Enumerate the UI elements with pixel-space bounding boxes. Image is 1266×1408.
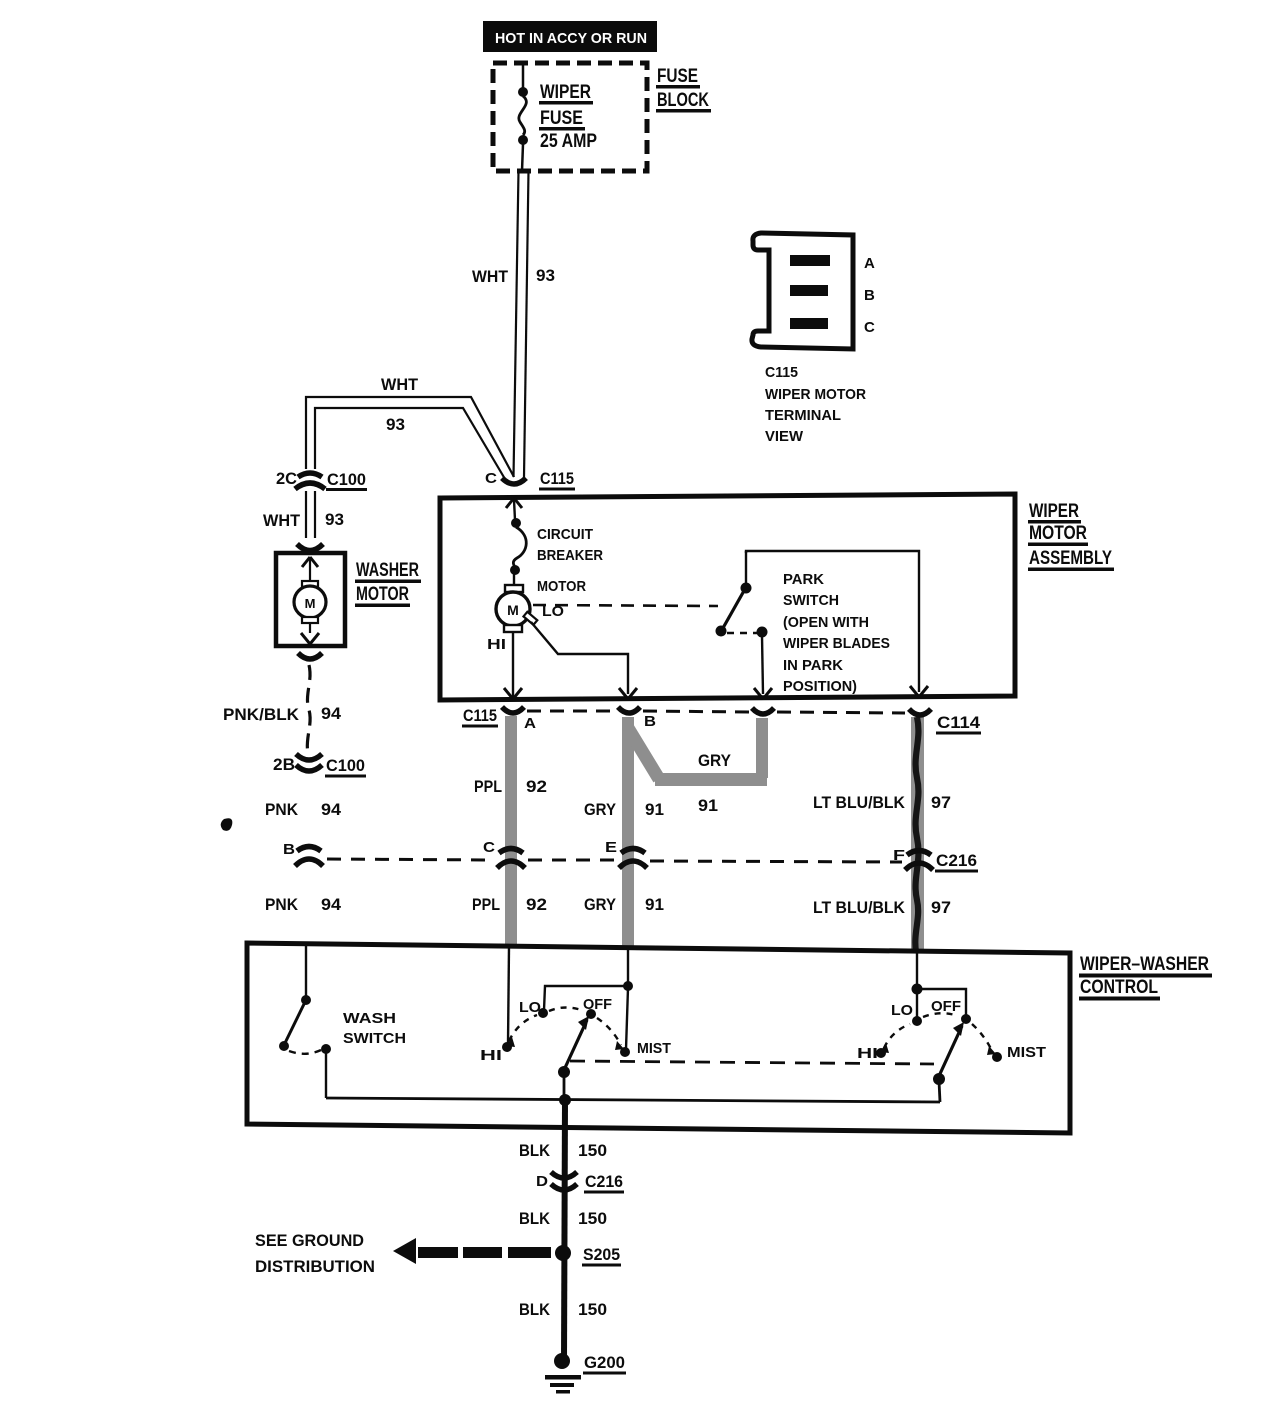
gray wire GRY 91 branch to park terminal — [628, 718, 768, 786]
right switch blade with arrow — [933, 1022, 964, 1102]
svg-text:WASH: WASH — [343, 1010, 396, 1027]
svg-text:C115: C115 — [765, 364, 798, 381]
svg-text:C114: C114 — [937, 713, 981, 732]
connector 2C C100 — [276, 469, 367, 491]
gray wire GRY 91 vertical — [622, 717, 634, 948]
wire WHT 93 branch to washer motor (double line) — [306, 397, 514, 479]
wire label GRY 91 — [584, 800, 664, 819]
terminal C114 connector — [909, 709, 981, 735]
svg-text:TERMINAL: TERMINAL — [765, 407, 841, 424]
park terminal connector — [752, 708, 774, 714]
svg-text:PPL: PPL — [474, 777, 502, 796]
svg-text:150: 150 — [578, 1300, 607, 1319]
connector at washer motor top — [297, 544, 323, 551]
svg-text:SWITCH: SWITCH — [343, 1030, 406, 1047]
dashed row B to C216 — [327, 859, 902, 862]
connector B — [283, 841, 323, 866]
svg-text:LO: LO — [891, 1002, 913, 1019]
svg-text:POSITION): POSITION) — [783, 678, 857, 695]
arrow at terminal B — [619, 688, 637, 699]
svg-text:ASSEMBLY: ASSEMBLY — [1029, 548, 1112, 569]
svg-text:97: 97 — [931, 898, 951, 917]
svg-text:SEE GROUND: SEE GROUND — [255, 1231, 364, 1250]
svg-text:DISTRIBUTION: DISTRIBUTION — [255, 1257, 375, 1276]
terminal row C115 below assembly box — [462, 706, 498, 728]
svg-text:PPL: PPL — [472, 895, 500, 914]
svg-text:BLOCK: BLOCK — [657, 90, 709, 111]
wiper-washer control box — [247, 943, 1070, 1133]
svg-text:B: B — [283, 841, 295, 858]
svg-text:PNK: PNK — [265, 800, 299, 819]
wire label BLK 150 — [519, 1209, 607, 1228]
svg-text:PNK: PNK — [265, 895, 299, 914]
svg-text:C: C — [483, 839, 495, 856]
park switch label — [783, 571, 890, 695]
wiper-washer control label — [1079, 954, 1212, 1001]
svg-text:LT BLU/BLK: LT BLU/BLK — [813, 898, 906, 917]
svg-text:WIPER: WIPER — [540, 82, 591, 103]
svg-text:C100: C100 — [326, 756, 365, 775]
right wiper switch contacts from LT BLU/BLK — [876, 952, 1002, 1062]
svg-text:M: M — [507, 602, 519, 618]
right switch dashed arc — [880, 1013, 996, 1055]
svg-text:WIPER: WIPER — [1029, 501, 1079, 522]
svg-text:OFF: OFF — [583, 996, 612, 1013]
svg-text:MIST: MIST — [1007, 1044, 1046, 1061]
svg-text:VIEW: VIEW — [765, 428, 804, 445]
svg-text:94: 94 — [321, 895, 342, 914]
svg-text:S205: S205 — [583, 1245, 620, 1264]
dashed link to right switch — [570, 1061, 934, 1064]
svg-text:92: 92 — [526, 895, 547, 914]
connector F C216 — [893, 847, 978, 873]
svg-text:2B: 2B — [273, 755, 295, 774]
svg-text:GRY: GRY — [698, 751, 732, 770]
fuse block dashed box — [493, 63, 647, 171]
svg-text:WASHER: WASHER — [356, 560, 419, 581]
svg-text:(OPEN WITH: (OPEN WITH — [783, 614, 869, 631]
svg-text:IN PARK: IN PARK — [783, 657, 843, 674]
svg-text:WHT: WHT — [381, 375, 419, 394]
wire label PNK 94 lower — [265, 895, 342, 914]
gray wire LT BLU/BLK 97 with dark core — [911, 717, 924, 952]
svg-text:D: D — [536, 1173, 548, 1190]
svg-text:BLK: BLK — [519, 1300, 551, 1319]
terminal A connector — [502, 707, 536, 732]
washer motor M symbol — [294, 557, 326, 644]
svg-text:150: 150 — [578, 1209, 607, 1228]
wire WHT 93 from fuse to C115 (double line) — [514, 171, 529, 477]
svg-text:A: A — [524, 715, 536, 732]
left switch position labels — [519, 996, 671, 1057]
circuit breaker — [510, 518, 526, 575]
wire WHT 93 to washer motor (double line) — [306, 491, 315, 538]
svg-text:92: 92 — [526, 777, 547, 796]
svg-text:97: 97 — [931, 793, 951, 812]
svg-text:93: 93 — [536, 266, 555, 285]
wire label WHT 93 — [472, 266, 555, 286]
wire HI to terminal A — [504, 632, 522, 699]
wire label BLK 150 — [519, 1300, 607, 1319]
svg-text:91: 91 — [698, 796, 718, 815]
wire label LT BLU/BLK 97 lower — [813, 898, 951, 917]
wire label GRY 91 lower — [584, 895, 664, 914]
wire label BLK 150 — [519, 1141, 607, 1160]
svg-text:WHT: WHT — [263, 511, 301, 530]
wiper motor assembly label — [1028, 501, 1114, 571]
svg-text:C: C — [864, 319, 875, 336]
svg-text:HOT IN ACCY OR RUN: HOT IN ACCY OR RUN — [495, 30, 647, 47]
svg-text:C: C — [485, 470, 497, 487]
ground G200 — [545, 1353, 626, 1394]
svg-text:2C: 2C — [276, 469, 297, 488]
branch wire label GRY 91 — [698, 751, 732, 815]
svg-text:FUSE: FUSE — [540, 108, 583, 129]
wire label PNK 94 — [265, 800, 342, 819]
wire into breaker with up arrow — [506, 498, 522, 520]
power feed label HOT IN ACCY OR RUN — [483, 21, 657, 52]
wire PNK/BLK 94 (broken scanned line) — [307, 665, 310, 753]
washer motor box — [276, 553, 345, 646]
svg-text:25 AMP: 25 AMP — [540, 131, 597, 152]
wire LO to terminal B — [531, 622, 628, 694]
connector E — [605, 839, 647, 868]
svg-text:91: 91 — [645, 895, 664, 914]
svg-text:MOTOR: MOTOR — [537, 578, 586, 595]
svg-text:GRY: GRY — [584, 800, 617, 819]
wiper motor M symbol — [496, 574, 537, 632]
svg-text:B: B — [864, 287, 875, 304]
svg-text:BREAKER: BREAKER — [537, 547, 603, 564]
left switch blade with arrow — [558, 1016, 589, 1099]
gray wire PPL 92 — [505, 716, 517, 946]
right switch position labels — [857, 998, 1046, 1062]
wiper motor assembly box — [440, 494, 1015, 700]
connector at washer motor bottom — [298, 653, 322, 659]
svg-text:PARK: PARK — [783, 571, 824, 588]
wiper fuse 25A symbol — [518, 64, 528, 171]
svg-text:F: F — [893, 847, 905, 864]
fuse block label — [656, 66, 711, 113]
svg-text:LT BLU/BLK: LT BLU/BLK — [813, 793, 906, 812]
svg-text:C100: C100 — [327, 470, 366, 489]
svg-text:G200: G200 — [584, 1353, 625, 1372]
scan speck — [221, 818, 233, 831]
connector C C115 at wiper motor assembly — [485, 469, 575, 491]
wire label PPL 92 — [474, 777, 547, 796]
svg-text:C115: C115 — [463, 706, 497, 725]
wire label PPL 92 lower — [472, 895, 547, 914]
svg-text:FUSE: FUSE — [657, 66, 698, 87]
svg-text:C115: C115 — [540, 469, 574, 488]
svg-text:91: 91 — [645, 800, 664, 819]
dashed link motor to park switch — [533, 605, 718, 606]
wash switch label — [343, 1010, 406, 1047]
svg-text:BLK: BLK — [519, 1209, 551, 1228]
svg-text:HI: HI — [487, 636, 506, 653]
svg-text:94: 94 — [321, 800, 342, 819]
wash switch — [279, 945, 331, 1098]
svg-text:93: 93 — [325, 510, 344, 529]
wire park switch to terminal C114 — [746, 551, 928, 697]
svg-text:WIPER–WASHER: WIPER–WASHER — [1080, 954, 1209, 975]
svg-text:93: 93 — [386, 415, 405, 434]
wire label LT BLU/BLK 97 — [813, 793, 951, 812]
circuit breaker label — [537, 526, 603, 564]
left switch dashed arc — [506, 1008, 624, 1051]
svg-text:CONTROL: CONTROL — [1080, 977, 1158, 998]
wiper fuse value label — [539, 82, 597, 152]
svg-text:94: 94 — [321, 704, 342, 723]
svg-text:BLK: BLK — [519, 1141, 551, 1160]
svg-text:C216: C216 — [936, 851, 977, 870]
wire BLK 150 to ground — [564, 1100, 565, 1361]
svg-text:WIPER MOTOR: WIPER MOTOR — [765, 386, 866, 403]
branch wire label WHT 93 — [381, 375, 419, 434]
left wiper switch HI contact from PPL — [480, 946, 512, 1064]
ground bus inside control box — [326, 1094, 940, 1106]
connector 2B C100 — [273, 754, 366, 778]
svg-text:GRY: GRY — [584, 895, 617, 914]
terminal view caption — [765, 364, 866, 445]
connector D C216 — [536, 1172, 624, 1194]
see ground distribution note — [255, 1231, 375, 1276]
wire label PNK/BLK 94 — [223, 704, 342, 724]
left wiper switch LO/OFF/MIST contacts from GRY — [538, 948, 633, 1057]
svg-text:B: B — [644, 713, 656, 730]
dashed line across terminals — [527, 711, 905, 713]
svg-text:SWITCH: SWITCH — [783, 592, 839, 609]
wire park contact to third terminal — [754, 636, 772, 699]
svg-text:E: E — [605, 839, 617, 856]
ground distribution arrow — [393, 1238, 551, 1264]
svg-text:WHT: WHT — [472, 267, 509, 286]
terminal B connector — [618, 707, 656, 730]
svg-text:HI: HI — [480, 1047, 502, 1064]
park switch — [716, 551, 768, 638]
svg-text:HI: HI — [857, 1045, 878, 1062]
splice S205 — [555, 1245, 621, 1267]
svg-text:WIPER BLADES: WIPER BLADES — [783, 635, 890, 652]
svg-text:MOTOR: MOTOR — [356, 584, 409, 605]
wire label WHT 93 — [263, 510, 344, 530]
wiper motor terminal view connector C115 — [752, 233, 875, 349]
svg-text:MOTOR: MOTOR — [1029, 523, 1087, 544]
svg-text:150: 150 — [578, 1141, 607, 1160]
svg-text:LO: LO — [519, 999, 541, 1016]
svg-text:PNK/BLK: PNK/BLK — [223, 705, 300, 724]
svg-text:M: M — [305, 596, 316, 611]
washer motor label — [355, 560, 421, 607]
connector C — [483, 839, 525, 868]
svg-text:C216: C216 — [585, 1172, 623, 1191]
svg-text:CIRCUIT: CIRCUIT — [537, 526, 593, 543]
svg-text:A: A — [864, 255, 875, 272]
svg-text:MIST: MIST — [637, 1040, 671, 1057]
svg-text:OFF: OFF — [931, 998, 961, 1015]
